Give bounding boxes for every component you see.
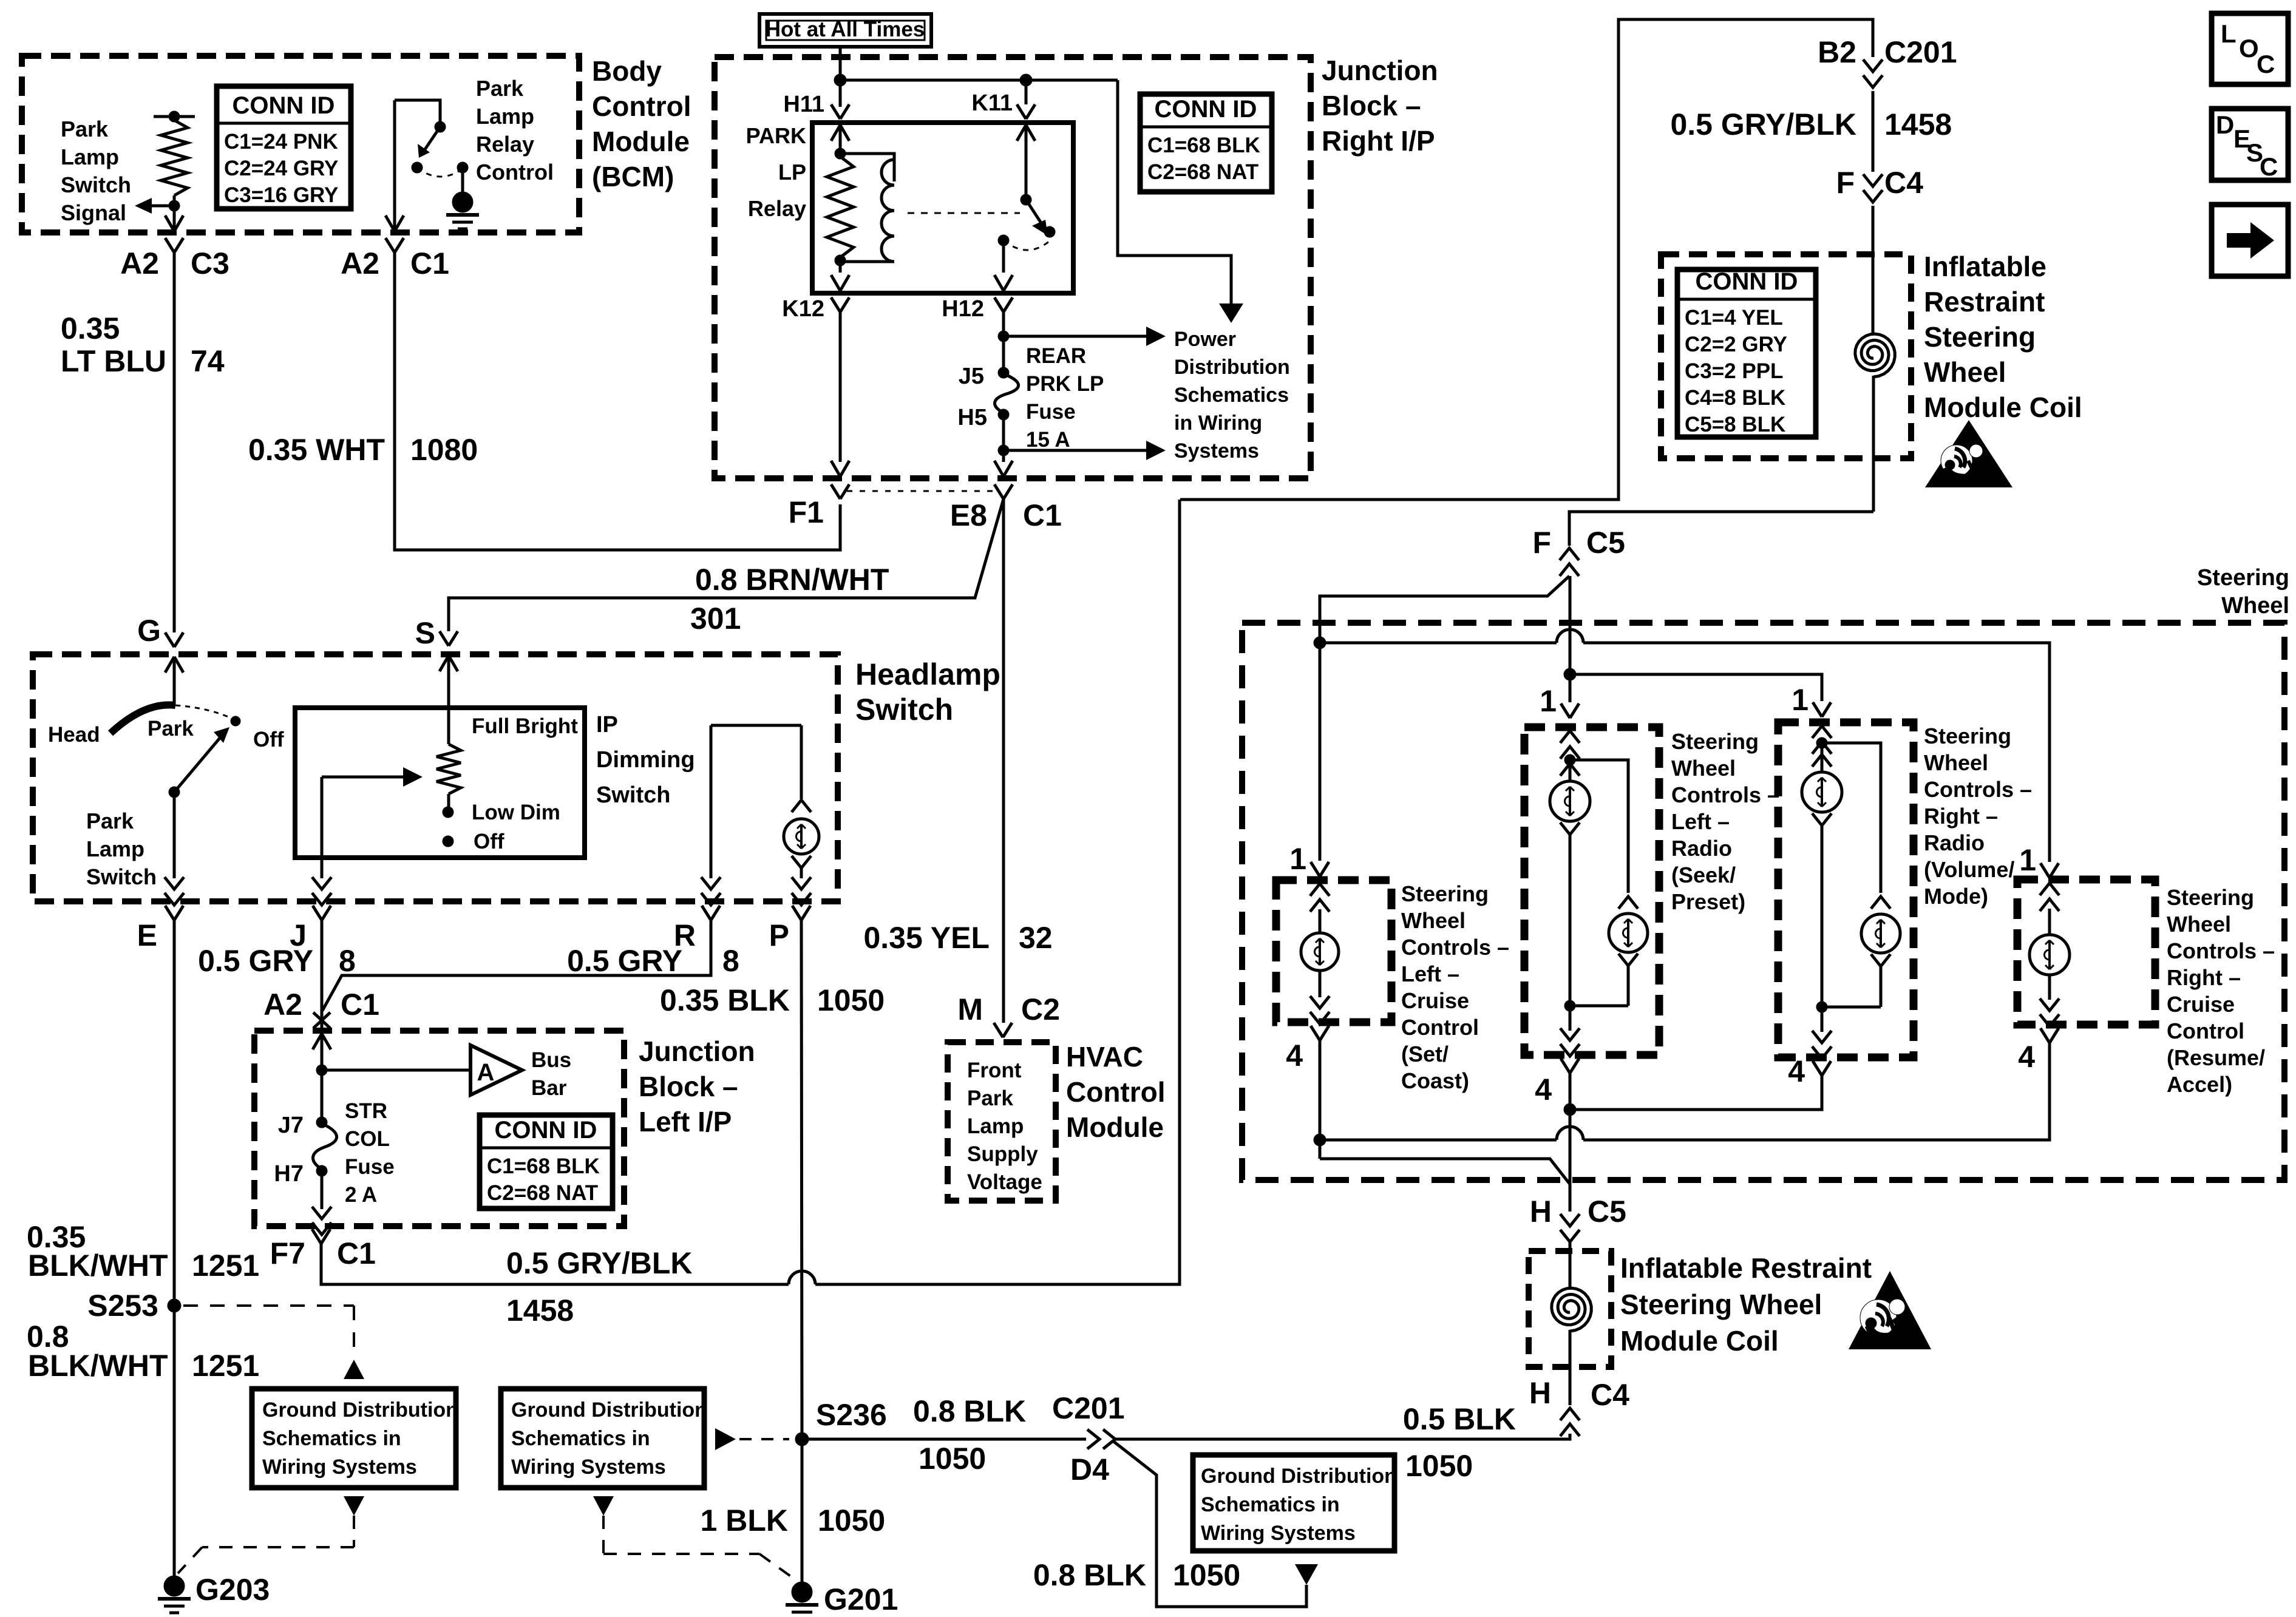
svg-text:C1=68 BLK: C1=68 BLK: [1147, 134, 1260, 157]
CONN ID table (Junction Block Right): [1140, 94, 1272, 192]
svg-text:(Volume/: (Volume/: [1924, 857, 2014, 882]
svg-text:C2=68 NAT: C2=68 NAT: [487, 1181, 598, 1205]
svg-text:Controls –: Controls –: [1401, 935, 1509, 960]
svg-text:1050: 1050: [1173, 1558, 1240, 1592]
svg-text:Fuse: Fuse: [1026, 400, 1076, 424]
svg-text:C2: C2: [1021, 992, 1060, 1026]
svg-text:C3: C3: [191, 246, 229, 280]
svg-text:0.35 WHT: 0.35 WHT: [248, 433, 385, 467]
wire: wiper to J: [321, 777, 324, 878]
svg-text:Wiring Systems: Wiring Systems: [511, 1456, 666, 1479]
svg-text:(Seek/: (Seek/: [1671, 863, 1736, 887]
svg-text:B2: B2: [1818, 35, 1856, 69]
svg-text:1251: 1251: [192, 1249, 259, 1283]
svg-text:Schematics in: Schematics in: [511, 1427, 650, 1450]
junction dot: signal branch B: [1564, 668, 1576, 680]
svg-text:C4: C4: [1591, 1378, 1629, 1412]
svg-text:Lamp: Lamp: [86, 836, 144, 861]
wire: R joins J wire: [322, 920, 711, 1011]
module box: Body Control Module (BCM): [22, 56, 579, 232]
fuse: STR COL Fuse 2 A: [316, 1117, 327, 1128]
svg-text:Switch: Switch: [596, 782, 670, 808]
svg-text:1: 1: [1792, 683, 1809, 717]
svg-text:Module Coil: Module Coil: [1620, 1325, 1779, 1357]
lamp: Seek/Preset lamp 2: [1609, 914, 1648, 952]
switch box: Steering Wheel Controls - Right - Radio (Volume/Mode): [1778, 722, 1914, 1057]
svg-text:HVAC: HVAC: [1066, 1041, 1143, 1073]
svg-text:Park: Park: [86, 808, 134, 833]
svg-text:Switch: Switch: [86, 864, 157, 889]
svg-text:Relay: Relay: [748, 196, 806, 221]
svg-text:Cruise: Cruise: [1401, 988, 1469, 1013]
wire: coil output down to F/C5: [1569, 512, 1873, 546]
wire: Seek/Preset right branch: [1570, 760, 1628, 893]
junction dot + arrow: fuse feed to power distribution: [998, 331, 1009, 342]
wire: J to junction block left A2/C1: [321, 920, 324, 1031]
rotary switch: headlamp Head/Park/Off: [110, 705, 175, 733]
svg-text:4: 4: [1286, 1039, 1303, 1073]
svg-text:301: 301: [690, 602, 741, 636]
svg-text:Controls –: Controls –: [2167, 938, 2275, 963]
svg-text:L: L: [2221, 19, 2237, 48]
svg-text:Park: Park: [476, 76, 524, 101]
connector F/C5 (steering wheel): [1560, 564, 1579, 576]
svg-text:G201: G201: [824, 1582, 898, 1616]
svg-text:Controls –: Controls –: [1924, 777, 2032, 802]
svg-text:H: H: [1529, 1376, 1551, 1410]
junction dot: Volume/Mode internal split: [1816, 737, 1827, 748]
connector pin 4 (Resume/Accel): [2040, 1028, 2050, 1043]
connector H11 (relay): [831, 104, 840, 119]
svg-text:C1=24 PNK: C1=24 PNK: [224, 130, 338, 154]
dashed branch: reference to G203: [344, 1496, 364, 1516]
module box: Inflatable Restraint Steering Wheel Module Coil (upper): [1661, 254, 1911, 458]
reference box: DESC: [2212, 109, 2288, 180]
svg-text:C5: C5: [1586, 526, 1625, 560]
switch: Park Lamp Relay Control (inside BCM): [395, 100, 440, 124]
dashed arrow: reference to S236: [715, 1428, 736, 1450]
svg-text:Steering: Steering: [1924, 321, 2036, 353]
svg-text:C3=2 PPL: C3=2 PPL: [1685, 359, 1783, 383]
svg-text:C1: C1: [410, 246, 449, 280]
resistor: park lamp switch signal (inside BCM): [154, 115, 195, 118]
wire: Volume/Mode left branch: [1821, 743, 1824, 772]
module box: Junction Block - Right I/P: [715, 57, 1311, 478]
svg-text:15 A: 15 A: [1026, 428, 1070, 452]
connector pin 1 (Resume/Accel): [2040, 863, 2050, 878]
svg-text:Signal: Signal: [61, 200, 126, 225]
svg-text:Control: Control: [1066, 1076, 1166, 1108]
svg-text:F: F: [1836, 166, 1855, 200]
svg-text:Schematics in: Schematics in: [1201, 1493, 1340, 1516]
svg-text:J5: J5: [959, 364, 984, 389]
svg-text:C5=8 BLK: C5=8 BLK: [1685, 413, 1785, 436]
svg-text:Systems: Systems: [1174, 439, 1259, 463]
wire: circuit 301 (E8 to headlamp switch S): [449, 499, 1004, 631]
junction dot: Seek/Preset internal split: [1564, 754, 1575, 765]
reference box: Ground Distribution Schematics (middle): [501, 1389, 704, 1488]
svg-text:1080: 1080: [410, 433, 478, 467]
svg-text:C2=68 NAT: C2=68 NAT: [1147, 160, 1258, 184]
svg-text:A: A: [477, 1059, 495, 1086]
svg-text:LP: LP: [778, 160, 806, 185]
svg-text:Right I/P: Right I/P: [1322, 125, 1435, 157]
svg-text:C3=16 GRY: C3=16 GRY: [224, 183, 338, 207]
svg-text:Wheel: Wheel: [1671, 756, 1736, 781]
box: Hot at All Times: [759, 14, 931, 47]
connector pin 4 (Set/Coast): [1311, 1026, 1320, 1040]
svg-text:Module: Module: [1066, 1111, 1164, 1143]
connector K11 (relay): [1025, 80, 1028, 104]
svg-text:D4: D4: [1070, 1453, 1109, 1486]
svg-text:0.8 BRN/WHT: 0.8 BRN/WHT: [695, 563, 889, 597]
reference box: LOC: [2212, 13, 2288, 84]
wiper arrow: IP dimming: [322, 776, 406, 779]
wire: F/C5 into steering wheel (split): [1320, 576, 1569, 640]
svg-text:0.5 GRY/BLK: 0.5 GRY/BLK: [1670, 107, 1856, 141]
connector H/C4: [1560, 1424, 1580, 1436]
relay switch contact: [1021, 194, 1031, 205]
svg-text:Accel): Accel): [2167, 1072, 2232, 1097]
connector K12 (relay to JB): [839, 270, 842, 273]
svg-text:C: C: [2260, 152, 2278, 181]
svg-text:Bar: Bar: [531, 1076, 567, 1100]
wire: Seek/Preset feed (pin 1): [1569, 674, 1572, 702]
lamp: Volume/Mode lamp 2: [1861, 914, 1900, 953]
svg-text:1: 1: [2019, 843, 2036, 877]
wire: ground bus L2 (Set/Coast 4 to Resume/Accel 4): [1319, 1040, 1322, 1159]
lamp: Set/Coast switch illumination: [1301, 933, 1339, 971]
svg-text:Wiring Systems: Wiring Systems: [262, 1456, 417, 1479]
svg-text:A2: A2: [263, 988, 302, 1022]
svg-text:F: F: [1532, 526, 1551, 560]
svg-text:0.5 GRY: 0.5 GRY: [198, 944, 313, 978]
svg-text:Schematics: Schematics: [1174, 384, 1289, 407]
splice S253: [168, 1299, 181, 1312]
svg-text:F1: F1: [789, 495, 824, 529]
svg-text:Park: Park: [61, 117, 109, 141]
wire: Hot at All Times feed into junction block: [839, 47, 842, 107]
wire: Volume/Mode right branch: [1822, 743, 1881, 893]
svg-text:F7: F7: [270, 1236, 305, 1270]
svg-text:Wiring Systems: Wiring Systems: [1201, 1522, 1356, 1545]
wire: P ground wire 1050 to G201: [801, 920, 802, 1439]
svg-text:BLK/WHT: BLK/WHT: [28, 1349, 168, 1383]
svg-text:Wheel: Wheel: [2221, 593, 2289, 619]
connector F1 (JB bottom): [831, 484, 840, 499]
svg-text:1251: 1251: [192, 1349, 259, 1383]
svg-text:4: 4: [1535, 1073, 1552, 1107]
svg-text:PRK LP: PRK LP: [1026, 372, 1104, 396]
svg-text:Body: Body: [592, 55, 662, 87]
svg-text:Controls –: Controls –: [1671, 782, 1779, 807]
junction dot: bus bar tap: [316, 1065, 327, 1076]
svg-text:0.5 GRY: 0.5 GRY: [567, 944, 682, 978]
svg-text:0.8 BLK: 0.8 BLK: [913, 1394, 1026, 1428]
svg-text:Preset): Preset): [1671, 889, 1745, 914]
svg-text:STR: STR: [345, 1099, 387, 1123]
signal arrow: Park Lamp Switch Signal: [149, 205, 174, 208]
svg-text:E: E: [137, 918, 157, 952]
svg-text:A2: A2: [341, 246, 379, 280]
svg-text:H12: H12: [942, 296, 984, 322]
wire: branch A to Resume/Accel (pin 1): [1320, 642, 1557, 645]
svg-text:Distribution: Distribution: [1174, 356, 1290, 379]
SIR warning triangle (lower): [1849, 1271, 1931, 1349]
svg-text:C201: C201: [1052, 1391, 1125, 1425]
svg-text:1050: 1050: [919, 1442, 986, 1476]
junction dot: Volume/Mode bottom: [1816, 1002, 1827, 1012]
wire: circuit 74 (A2/C3 to headlamp switch G): [173, 253, 176, 632]
dashed branch: S253 to ground distribution reference: [183, 1304, 354, 1307]
svg-text:CONN ID: CONN ID: [1155, 96, 1257, 123]
svg-text:Hot at All Times: Hot at All Times: [766, 18, 925, 41]
svg-text:C1: C1: [341, 988, 379, 1022]
solid box: IP Dimming Switch: [295, 708, 585, 858]
CONN ID table (BCM): [217, 86, 351, 209]
svg-text:Mode): Mode): [1924, 884, 1988, 909]
svg-text:Lamp: Lamp: [61, 144, 119, 169]
svg-text:IP: IP: [596, 712, 618, 737]
connector B2/C201: [1863, 59, 1883, 72]
dashed link: relay coil to contact arm: [908, 212, 1020, 214]
svg-text:G203: G203: [195, 1573, 270, 1607]
svg-text:(Resume/: (Resume/: [2167, 1045, 2265, 1070]
svg-text:Cruise: Cruise: [2167, 992, 2235, 1017]
svg-text:Module Coil: Module Coil: [1924, 392, 2082, 423]
svg-text:4: 4: [1788, 1054, 1805, 1088]
junction dot: battery feed node: [834, 74, 846, 86]
svg-text:Left I/P: Left I/P: [639, 1106, 732, 1137]
connector E: [165, 906, 174, 920]
svg-text:Left –: Left –: [1671, 809, 1730, 834]
svg-text:Front: Front: [967, 1059, 1022, 1082]
junction dot + arrow: fuse output to power distribution: [998, 445, 1009, 456]
svg-text:Headlamp: Headlamp: [855, 657, 1000, 691]
svg-text:Block –: Block –: [1322, 90, 1421, 121]
svg-text:Steering: Steering: [1671, 729, 1759, 754]
svg-text:Right –: Right –: [1924, 804, 1998, 829]
connector pin 4 (Volume/Mode): [1813, 1061, 1822, 1076]
svg-text:Control: Control: [592, 90, 691, 122]
connector R: [702, 906, 711, 920]
relay box: PARK LP Relay: [812, 123, 1073, 293]
resistor: relay coil suppression: [835, 148, 846, 159]
CONN ID table (coil connectors): [1677, 269, 1816, 437]
svg-text:C4=8 BLK: C4=8 BLK: [1685, 386, 1785, 410]
svg-text:C201: C201: [1884, 35, 1957, 69]
svg-text:H7: H7: [274, 1161, 304, 1187]
svg-text:0.35 BLK: 0.35 BLK: [660, 983, 790, 1017]
SIR warning triangle (upper): [1925, 420, 2012, 487]
svg-text:C1=68 BLK: C1=68 BLK: [487, 1154, 600, 1178]
svg-text:C1: C1: [337, 1236, 376, 1270]
svg-text:H: H: [1530, 1195, 1552, 1229]
wire: ground exit to H/C5: [1320, 1159, 1570, 1184]
wire: Seek/Preset left branch: [1569, 760, 1572, 781]
svg-text:PARK: PARK: [746, 123, 806, 148]
wire: D4 branch to ground distribution: [1112, 1440, 1306, 1607]
svg-text:D: D: [2216, 110, 2234, 139]
fuse: REAR PRK LP Fuse 15 A: [1002, 336, 1005, 373]
svg-text:Fuse: Fuse: [345, 1155, 395, 1179]
svg-text:O: O: [2239, 34, 2259, 63]
svg-text:K12: K12: [782, 296, 824, 322]
svg-text:Full Bright: Full Bright: [472, 714, 578, 738]
module box: Steering Wheel: [1242, 623, 2284, 1180]
resistor: IP dimming rheostat: [436, 744, 461, 794]
svg-text:0.5 GRY/BLK: 0.5 GRY/BLK: [506, 1246, 693, 1280]
svg-text:Dimming: Dimming: [596, 747, 695, 773]
svg-text:BLK/WHT: BLK/WHT: [28, 1249, 168, 1283]
svg-text:Steering Wheel: Steering Wheel: [1620, 1289, 1822, 1320]
switch box: Steering Wheel Controls - Right - Cruise Control (Resume/Accel): [2017, 880, 2155, 1025]
svg-text:A2: A2: [120, 246, 159, 280]
svg-text:Wheel: Wheel: [1924, 750, 1988, 775]
wire: circuit 32 (E8 to HVAC M/C2): [1002, 499, 1005, 1023]
junction dot: signal branch A: [1314, 637, 1326, 649]
svg-text:Control: Control: [476, 160, 554, 185]
svg-text:C4: C4: [1884, 166, 1923, 200]
svg-text:C1=4 YEL: C1=4 YEL: [1685, 306, 1783, 330]
coil: SIR coil (upper): [1855, 334, 1895, 377]
connector E8/C1 (JB bottom): [994, 484, 1004, 499]
lamp: Volume/Mode lamp 1: [1802, 772, 1842, 812]
connector pin 1 (Volume/Mode): [1813, 702, 1822, 717]
svg-text:LT BLU: LT BLU: [61, 344, 166, 378]
svg-text:Block –: Block –: [639, 1071, 738, 1102]
module box: HVAC Control Module (Front Park Lamp Supply Voltage): [948, 1042, 1056, 1201]
svg-text:1 BLK: 1 BLK: [701, 1503, 788, 1537]
connector H12: [994, 297, 1004, 312]
svg-text:Radio: Radio: [1924, 830, 1985, 855]
switch box: Steering Wheel Controls - Left - Radio (Seek/Preset): [1524, 727, 1659, 1055]
svg-text:Junction: Junction: [639, 1036, 755, 1067]
svg-text:Coast): Coast): [1401, 1068, 1469, 1093]
svg-text:Bus: Bus: [531, 1048, 571, 1072]
CONN ID table (Junction Block Left): [480, 1115, 613, 1209]
wire: K12 to F1: [839, 312, 842, 462]
svg-text:H11: H11: [783, 92, 824, 117]
svg-text:1050: 1050: [1405, 1449, 1473, 1483]
connector A2/C3 (BCM): [165, 215, 174, 231]
svg-text:COL: COL: [345, 1127, 390, 1151]
svg-text:1050: 1050: [818, 1503, 885, 1537]
svg-text:8: 8: [339, 944, 356, 978]
svg-text:2 A: 2 A: [345, 1183, 377, 1207]
svg-text:CONN ID: CONN ID: [1696, 268, 1798, 295]
wire: circuit 1251 (E to G203): [173, 920, 176, 1577]
svg-text:E8: E8: [950, 498, 987, 532]
module box: Inflatable Restraint Steering Wheel Module Coil (lower): [1529, 1251, 1611, 1367]
svg-text:Control: Control: [1401, 1015, 1479, 1040]
switch box: Steering Wheel Controls - Left - Cruise Control (Set/Coast): [1276, 880, 1391, 1022]
svg-text:Schematics in: Schematics in: [262, 1427, 401, 1450]
svg-text:0.35: 0.35: [61, 311, 120, 345]
svg-text:32: 32: [1019, 921, 1053, 955]
svg-text:8: 8: [722, 944, 739, 978]
svg-text:0.5 BLK: 0.5 BLK: [1403, 1402, 1516, 1436]
svg-text:Wheel: Wheel: [1401, 908, 1466, 933]
connector M/C2 (HVAC): [994, 1023, 1003, 1037]
wire: 1458 to F/C4: [1872, 91, 1875, 172]
wire: arrow branch to Power Distribution Schematics: [1118, 80, 1231, 303]
svg-text:S: S: [415, 616, 435, 650]
connector pin 4 (Seek/Preset): [1561, 1059, 1570, 1073]
svg-text:1: 1: [1289, 842, 1306, 876]
svg-text:Switch: Switch: [61, 172, 131, 197]
svg-text:Relay: Relay: [476, 132, 534, 157]
connector S (headlamp switch): [440, 631, 449, 646]
wire: circuit 1080 (A2/C1 to junction block F1): [395, 253, 840, 550]
svg-text:C: C: [2257, 50, 2275, 78]
connector A2/C1 (junction block left): [313, 1012, 330, 1028]
svg-text:CONN ID: CONN ID: [495, 1117, 597, 1144]
svg-text:P: P: [769, 918, 789, 952]
svg-text:Restraint: Restraint: [1924, 286, 2045, 317]
coil: SIR coil (lower): [1569, 1242, 1572, 1287]
svg-text:C1: C1: [1023, 498, 1062, 532]
svg-text:J7: J7: [278, 1113, 304, 1138]
lamp: Seek/Preset lamp 1: [1550, 781, 1590, 821]
svg-text:1: 1: [1540, 684, 1557, 718]
connector P: [792, 906, 801, 920]
svg-text:74: 74: [191, 344, 225, 378]
junction dot: Seek/Preset bottom: [1564, 1000, 1575, 1011]
wire: Set/Coast feed: [1319, 643, 1322, 861]
svg-text:1458: 1458: [1884, 107, 1952, 141]
svg-text:Inflatable: Inflatable: [1924, 251, 2046, 282]
svg-text:Radio: Radio: [1671, 836, 1732, 861]
svg-text:Park: Park: [967, 1086, 1013, 1110]
ground G203: [164, 1576, 185, 1596]
ground G201: [792, 1582, 812, 1602]
svg-text:(BCM): (BCM): [592, 161, 674, 192]
wire: illumination feed R/P inside headlamp switch: [711, 724, 801, 727]
connector A2/C1 (BCM): [385, 238, 395, 253]
reference box: next-page arrow: [2212, 205, 2288, 276]
svg-text:Right –: Right –: [2167, 965, 2241, 990]
svg-text:1050: 1050: [817, 983, 885, 1017]
svg-text:Supply: Supply: [967, 1142, 1038, 1166]
svg-text:Off: Off: [474, 830, 504, 853]
wire: BCM left output to A2/C1: [393, 100, 396, 229]
wire: steering-wheel feed loop (JB to B2/C201): [1180, 19, 1873, 500]
wire: circuit 1050 ground (H/C4 to S236): [1113, 1434, 1570, 1439]
reference box: Ground Distribution Schematics (right): [1193, 1455, 1394, 1551]
bus bar: A: [322, 1069, 470, 1072]
reference box: Ground Distribution Schematics (left): [252, 1389, 456, 1488]
wire: circuit 1458 (F7 to steering wheel): [321, 1244, 789, 1284]
svg-text:S253: S253: [87, 1289, 158, 1323]
svg-text:Switch: Switch: [855, 693, 953, 727]
wire: feed to K11 and right branch: [840, 79, 1118, 82]
svg-text:H5: H5: [957, 405, 987, 430]
svg-text:Lamp: Lamp: [476, 104, 534, 129]
connector G (headlamp switch): [165, 632, 174, 647]
dashed branch: middle reference to G201: [593, 1496, 614, 1516]
svg-text:Steering: Steering: [1401, 881, 1489, 906]
svg-text:K11: K11: [971, 90, 1013, 116]
wire: branch B to Volume/Mode (pin 1): [1570, 674, 1822, 701]
svg-text:Control: Control: [2167, 1019, 2244, 1043]
svg-text:G: G: [137, 614, 161, 648]
connector pin 1 (Seek/Preset): [1561, 703, 1570, 718]
dashed link: connector C1 body: [847, 490, 996, 492]
svg-text:Park: Park: [148, 717, 194, 741]
connector H/C5 (steering wheel): [1560, 1214, 1580, 1226]
svg-text:1458: 1458: [506, 1293, 574, 1327]
